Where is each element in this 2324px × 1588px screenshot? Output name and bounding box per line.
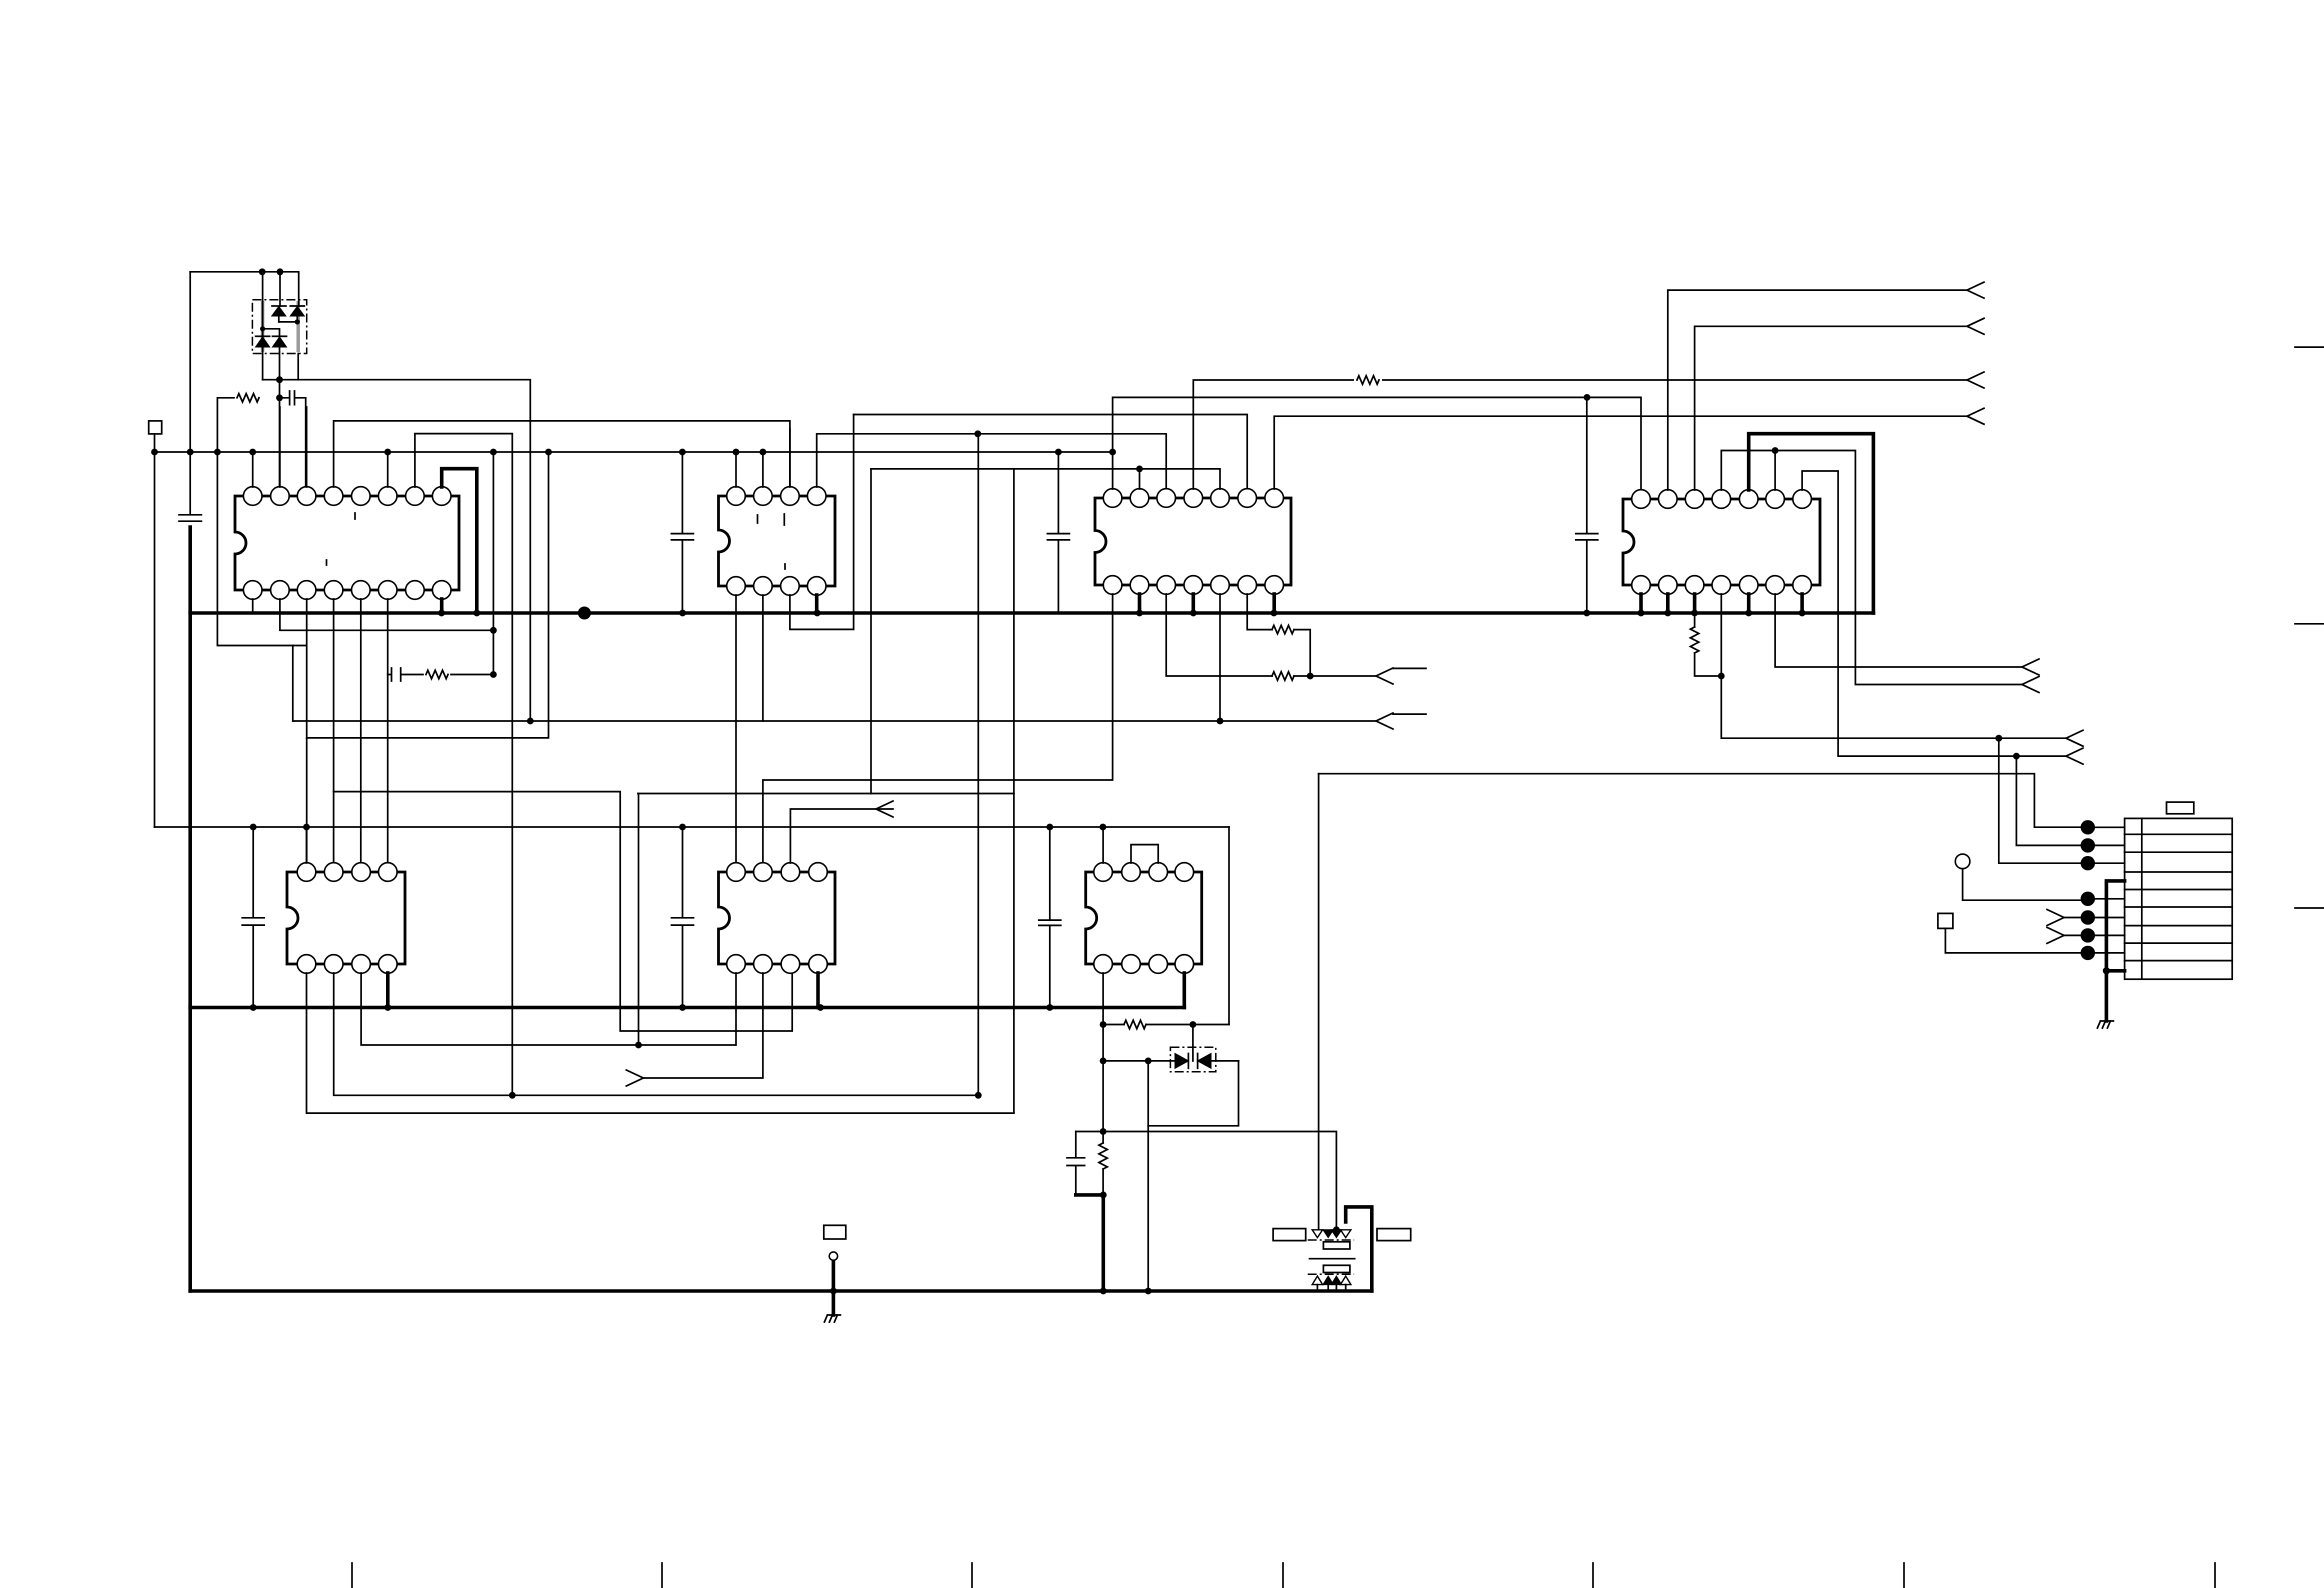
- IC5 pin7 wire y=1045: [361, 973, 735, 1045]
- IC2 pin6 wire to line y=721: [762, 595, 764, 721]
- IC5 pin1 riser: [306, 827, 308, 863]
- wire bridge output to pin2 of IC1: [263, 380, 280, 496]
- capacitor C8 with resistor R8 (parallel RC): [1067, 1132, 1085, 1195]
- IC1 pin10 wire to x=493 riser: [280, 599, 494, 630]
- capacitor C7: [1039, 827, 1061, 1008]
- IC2 pin8 thick stub: [815, 595, 819, 613]
- arrow out y=676: [1376, 668, 1393, 684]
- bottom border tick marks: [352, 1563, 2215, 1588]
- rail2 y=827: [155, 826, 1230, 828]
- diode D5a (left, pointing right): [1175, 1054, 1188, 1069]
- IC1 pin3 riser: [306, 407, 308, 487]
- resistor R3 (y=629.6): [1247, 594, 1272, 630]
- IC1 pin16 stub: [252, 599, 254, 613]
- connector CN1 row stub wires with solder dots: [2088, 827, 2125, 953]
- test point label box TP2: [824, 1225, 846, 1239]
- capacitor C2: [671, 452, 693, 613]
- input arrow row7: [2047, 927, 2064, 943]
- lower ground bus y=1007.5 (thick): [190, 1006, 1184, 1010]
- wire Q net y=793.5: [638, 793, 1014, 795]
- wire Q down leg: [638, 794, 640, 1046]
- ground symbol below bus3: [832, 1291, 836, 1315]
- IC3 pin bottom3 wire to R_b: [1166, 594, 1272, 676]
- IC2 pin4 riser wire y=433.8 to IC3 pin3: [817, 434, 1166, 489]
- head H1 right label box: [1377, 1229, 1411, 1241]
- wire row2 feeder: [2016, 756, 2087, 845]
- IC IC4 (14-pin DIP): [1623, 499, 1820, 585]
- diode D2 (top-right): [290, 305, 304, 307]
- riser x=1014 from y=468.9 down: [1013, 469, 1015, 1113]
- IC IC2 (8-pin DIP): [719, 496, 836, 586]
- IC5 pin5 wire y=1113: [307, 973, 1014, 1113]
- arrow out y=684: [2022, 677, 2039, 693]
- resistor R6 (in line y=380): [1354, 372, 1382, 388]
- IC4 pin3 riser + arrow line y=326: [1695, 326, 1967, 490]
- arrow out y=326: [1967, 318, 1984, 334]
- diode D3 (bottom-left): [256, 335, 270, 337]
- IC1 pin11 wire y=645.5: [217, 452, 306, 872]
- IC7 pin5b vertical: [1102, 973, 1104, 1132]
- IC3 pin8 thick stub: [1138, 594, 1142, 613]
- IC3 pin4 riser + line y=380 to arrow: [1193, 380, 1967, 489]
- head H1 row2 triangles: [1312, 1276, 1322, 1285]
- capacitor C3: [1047, 452, 1069, 613]
- IC3 pin11 thick stub: [1192, 594, 1196, 613]
- capacitor C9 (series, horizontal): [280, 391, 306, 496]
- wire R1 left lead to rail: [217, 398, 234, 452]
- capacitor C4: [1576, 397, 1598, 613]
- resistor R1: [237, 394, 259, 402]
- resistor R7 y=1024.5: [1103, 1024, 1124, 1026]
- bottom ground bus y=1291 (thick): [190, 1289, 1372, 1293]
- capacitor C5: [242, 827, 264, 1008]
- TP2 stub to bus3: [832, 1262, 836, 1291]
- wire loop to bus3: [1147, 1126, 1149, 1291]
- wire diode bypass loop: [1148, 1061, 1238, 1126]
- left power vertical x=190 (thick below cap): [189, 272, 191, 514]
- IC3 pin bottom1 wire to y=780: [763, 594, 1113, 863]
- arrow out y=721: [1376, 713, 1393, 729]
- TP3 wire to row5: [1963, 869, 2088, 901]
- head H1 feeding wire right dot: [1333, 1226, 1340, 1233]
- wire row3 feeder: [1999, 738, 2088, 863]
- resistor R5 below bus: [1694, 613, 1696, 627]
- diode D4 (bottom-right): [273, 335, 287, 337]
- IC7 pin8b thick stub: [1183, 973, 1187, 1008]
- right border tick marks: [2295, 347, 2324, 908]
- main ground bus y=613 (thick): [190, 611, 1873, 615]
- IC6 pin6 wire y=1078 with arrow: [643, 973, 763, 1078]
- head H1 row2 stubs: [1317, 1285, 1345, 1291]
- x=493 riser from rail: [492, 452, 494, 675]
- IC2 internal ticks: [758, 514, 786, 569]
- big junction dot on bus: [578, 607, 591, 620]
- head H1 feeding wire left: [1318, 774, 1320, 1230]
- wire x=548 from rail to y=737.9: [307, 452, 549, 738]
- IC IC7 (8-pin DIP): [1086, 872, 1202, 964]
- diode bridge dash-dot box D1-D4: [252, 300, 306, 354]
- IC1 pin14 long vertical to IC5 pin4: [387, 599, 389, 872]
- IC3 pin bottom5 wire to y=721: [1219, 594, 1221, 721]
- stub left end y=721: [292, 646, 294, 722]
- IC3 pin14 thick stub: [1272, 594, 1276, 613]
- connector CN1 thick row4 + bottom stubs and ground leg: [2106, 881, 2124, 1021]
- wire x=871 riser down to Q line: [870, 469, 872, 794]
- bridge internal wire y=321.9: [279, 321, 298, 323]
- thick RC bottom leads: [1076, 1195, 1104, 1291]
- arrow mid y=809: [876, 801, 893, 817]
- IC3 pin1 riser + net y=397.4 to IC4 pin1: [1113, 397, 1641, 490]
- label dash y=668: [1393, 667, 1426, 669]
- head H1 row1 core box: [1323, 1242, 1350, 1249]
- capacitor C6: [672, 827, 694, 1008]
- arrow out y=290: [1967, 282, 1984, 298]
- resistor R4 (to arrow y=676): [1272, 672, 1294, 680]
- head H1 divider: [1310, 1258, 1355, 1260]
- test point circle TP2: [829, 1252, 837, 1260]
- arrow mid y=1078: [626, 1070, 643, 1086]
- arrow out y=738: [2066, 730, 2083, 746]
- IC6 pin3 arrow wire y=809: [790, 809, 893, 863]
- capacitor C1: [179, 515, 201, 521]
- IC4 pin4 riser + wire y=450.5: [1721, 451, 2022, 685]
- IC1 pin1 riser: [252, 452, 254, 487]
- IC5 pin6 wire y=1095: [334, 434, 979, 1096]
- IC1 pin7 riser wrap to x=512: [415, 434, 512, 1096]
- IC1 pin13 long vertical to IC5 pin3: [360, 599, 362, 872]
- wire row1 feeder from head line y=773.7: [1319, 774, 2088, 828]
- IC2 pin2 riser: [762, 452, 764, 487]
- test point circle TP3: [1955, 854, 1970, 869]
- connector CN1 label box: [2167, 802, 2194, 814]
- IC3 pin7 riser + line y=416.2 to arrow: [1274, 416, 1967, 489]
- IC IC5 (8-pin DIP): [287, 872, 405, 964]
- label dash y=714: [1393, 713, 1426, 715]
- IC1 pin12 long vertical to IC5 pin2: [333, 599, 335, 872]
- connector CN1 body: [2125, 818, 2233, 979]
- IC1 pin6 riser: [387, 452, 389, 487]
- wire P net y=791.6: [334, 792, 793, 1031]
- terminal square TP1: [149, 421, 162, 434]
- IC4 pin2 riser + arrow line y=290: [1668, 290, 1967, 490]
- head H1 row2 core box: [1323, 1265, 1350, 1272]
- IC2 pin3 riser: [789, 429, 791, 487]
- rail1 y=452: [155, 451, 1113, 453]
- capacitor C10 with resistor R2 row y=674.5: [388, 668, 423, 681]
- head H1 thick bracket to bus3: [1346, 1207, 1372, 1291]
- diode D1 (top-left): [272, 305, 286, 307]
- rail2 end leg to R7: [1228, 827, 1230, 1025]
- head H1 row2 dash-dot line: [1308, 1273, 1354, 1275]
- junction dots on feed line: [259, 268, 266, 275]
- IC IC3 (14-pin DIP): [1095, 498, 1291, 585]
- IC IC1 (16-pin DIP): [235, 496, 459, 590]
- wire y=414.5 IC2.7 to IC3 pin6: [854, 415, 1248, 490]
- IC2 pin5 vertical to IC6 pin1: [735, 595, 737, 863]
- IC1 pin2 riser: [279, 407, 281, 487]
- test point square TP4: [1938, 913, 1953, 928]
- diode D5b (right, pointing left): [1198, 1054, 1211, 1069]
- wire bridge right leg to y=380: [297, 354, 299, 380]
- dual diode D5 dash-dot box: [1170, 1047, 1215, 1072]
- arrow out y=416: [1967, 408, 1984, 424]
- IC4 pin4b wire to connector row3 + arrow y=738: [1721, 594, 2066, 738]
- IC IC6 (8-pin DIP): [719, 872, 836, 964]
- IC2 pin7 wire y=629.4: [790, 415, 854, 630]
- IC1 internal ticks: [327, 513, 356, 565]
- IC1 pin9 stub: [440, 599, 444, 613]
- IC4 pin6 riser: [1774, 451, 1776, 491]
- bridge internal wire y=328.8: [263, 272, 280, 337]
- IC5 pin8 thick stub: [386, 973, 390, 1008]
- input arrow row6: [2047, 910, 2064, 926]
- head H1 row1 dash-dot line: [1308, 1239, 1354, 1241]
- arrow out y=380: [1967, 372, 1984, 388]
- left vertical x=154: [154, 452, 156, 827]
- gray contact rails inside bridge: [261, 301, 265, 352]
- IC6 pin5 wire: [735, 973, 737, 1045]
- IC6 pin4 thick stub: [816, 973, 820, 1008]
- wire top feed line y=271.8: [190, 272, 299, 306]
- IC4 pin5 thick wrap to bus: [1749, 434, 1874, 613]
- head H1 row1 triangles: [1312, 1230, 1322, 1238]
- wire R7 to diode pair center: [1192, 1025, 1194, 1062]
- head H1 left label box: [1273, 1229, 1306, 1241]
- IC1 pin8 thick wrap to bus: [442, 469, 477, 613]
- IC4 pin7 riser + wire y=471: [1802, 471, 2066, 756]
- arrow out y=756: [2066, 748, 2083, 764]
- wire bridge line y=379.7 to riser x=530: [280, 380, 531, 721]
- wire y=721 long line to arrow: [293, 720, 1376, 722]
- IC1 pin4 riser wrap to IC2 pin3: [334, 421, 790, 487]
- wire node to head line y=1131.5: [1103, 1132, 1336, 1230]
- IC7 pins2-3 jumper: [1131, 845, 1158, 863]
- IC4 bottom thick stubs: [1639, 594, 1643, 613]
- IC7 pin1 riser: [1102, 827, 1104, 863]
- wire through diode pair y=1060.9: [1103, 1060, 1238, 1062]
- IC4 pin6b wire to arrow y=667: [1775, 594, 2022, 667]
- IC2 pin1 riser: [735, 452, 737, 487]
- IC3 pin2 riser + wire y=468.9: [871, 469, 1220, 489]
- ground symbol below connector: [2097, 1021, 2113, 1028]
- arrow out y=667: [2022, 659, 2039, 675]
- TP4 wire to row8: [1945, 928, 2087, 953]
